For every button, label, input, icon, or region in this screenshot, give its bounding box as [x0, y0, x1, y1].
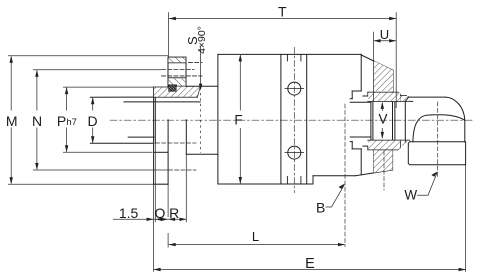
Q arrows: [155, 218, 162, 221]
dimension T line: [169, 18, 396, 20]
1.5 arrow: [147, 218, 154, 221]
dimension D: [92, 98, 94, 111]
seal packing: [168, 85, 176, 92]
extensions for 1.5/Q/R: [153, 184, 155, 272]
port circle lower: [285, 146, 304, 159]
svg-text:P: P: [57, 113, 66, 129]
D arrows: [91, 97, 94, 104]
svg-text:V: V: [378, 112, 387, 127]
gland ring hatch bottom band: [168, 78, 185, 85]
V arrows: [381, 102, 384, 109]
housing right face and steps: [350, 54, 361, 174]
centerline main axis: [110, 119, 472, 121]
elbow socket nut: [408, 142, 465, 165]
N arrows: [35, 70, 38, 77]
flange plate (exterior, below axis): [154, 120, 169, 184]
dimension 1.5 / Q / R line: [113, 218, 187, 220]
B leader arrow: [339, 184, 345, 189]
rotor cone chamfer: [361, 55, 393, 70]
svg-text:E: E: [305, 256, 315, 272]
svg-text:T: T: [278, 4, 287, 20]
dimension L line: [169, 244, 345, 246]
flange left face: [153, 87, 155, 184]
P arrows: [65, 87, 68, 94]
svg-text:B: B: [316, 199, 325, 215]
svg-text:h7: h7: [66, 117, 77, 128]
rotor shoulder (sectioned) upper: [374, 61, 393, 91]
svg-text:F: F: [234, 113, 242, 128]
W leader: [417, 173, 437, 196]
rotor shoulder (sectioned) lower: [374, 140, 393, 173]
port axis: [293, 48, 295, 193]
B leader: [326, 185, 345, 207]
V extension dashed below nipple: [383, 151, 385, 190]
pipe shoulder face (1.5 offset): [154, 97, 156, 143]
dimension F: [239, 55, 241, 110]
housing port boss edges: [281, 54, 307, 184]
R arrows: [168, 218, 175, 221]
M arrows: [10, 56, 13, 63]
housing body: [218, 54, 393, 184]
svg-text:U: U: [380, 27, 389, 42]
rotor sleeve lines into housing: [186, 86, 218, 154]
gland ring (sectioned): [168, 57, 186, 86]
svg-text:Q: Q: [155, 205, 166, 221]
svg-text:W: W: [404, 188, 417, 203]
rotor flange hub (sectioned slab): [154, 87, 201, 98]
svg-text:N: N: [32, 113, 42, 129]
nipple collar lower: [363, 140, 410, 150]
rotor pipe (left shaft): [90, 97, 200, 143]
svg-text:M: M: [6, 113, 18, 129]
dimension P: [63, 86, 154, 88]
svg-text:L: L: [252, 229, 259, 244]
dimension N: [33, 69, 161, 71]
svg-text:1.5: 1.5: [119, 205, 139, 221]
B bore end hidden line: [344, 104, 346, 247]
port circle upper: [285, 82, 304, 95]
svg-text:D: D: [87, 113, 97, 129]
hub hatch: [154, 87, 200, 97]
dimension M: [8, 55, 168, 57]
T/U extension right: [395, 12, 397, 108]
port hole stubs: [287, 54, 301, 184]
nipple bore walls: [350, 102, 395, 140]
E extension right: [465, 165, 467, 272]
F arrows: [239, 54, 242, 61]
hidden pipe edge behind flange: [156, 142, 197, 144]
dimension U line: [374, 40, 397, 42]
gland ring hatch top band: [168, 58, 185, 63]
T arrows: [169, 17, 176, 20]
dimension E line: [154, 269, 466, 271]
nipple collar upper: [363, 92, 413, 101]
svg-text:R: R: [169, 205, 179, 221]
U extension left: [373, 32, 375, 102]
T extension left: [168, 12, 170, 57]
4x90 leader arrow: [199, 84, 202, 91]
W port axis (dashed): [437, 102, 439, 178]
elbow fitting: [405, 97, 465, 142]
svg-text:4×90°: 4×90°: [196, 26, 208, 54]
bolt hole hidden lines: [162, 62, 203, 170]
L arrows: [169, 243, 176, 246]
bolt hole axis dotted: [200, 93, 202, 153]
W leader arrow: [431, 171, 437, 176]
dimension V: [381, 103, 383, 111]
U arrows: [374, 39, 381, 42]
S 4x90 leader: [200, 47, 202, 90]
E arrows: [154, 268, 161, 271]
